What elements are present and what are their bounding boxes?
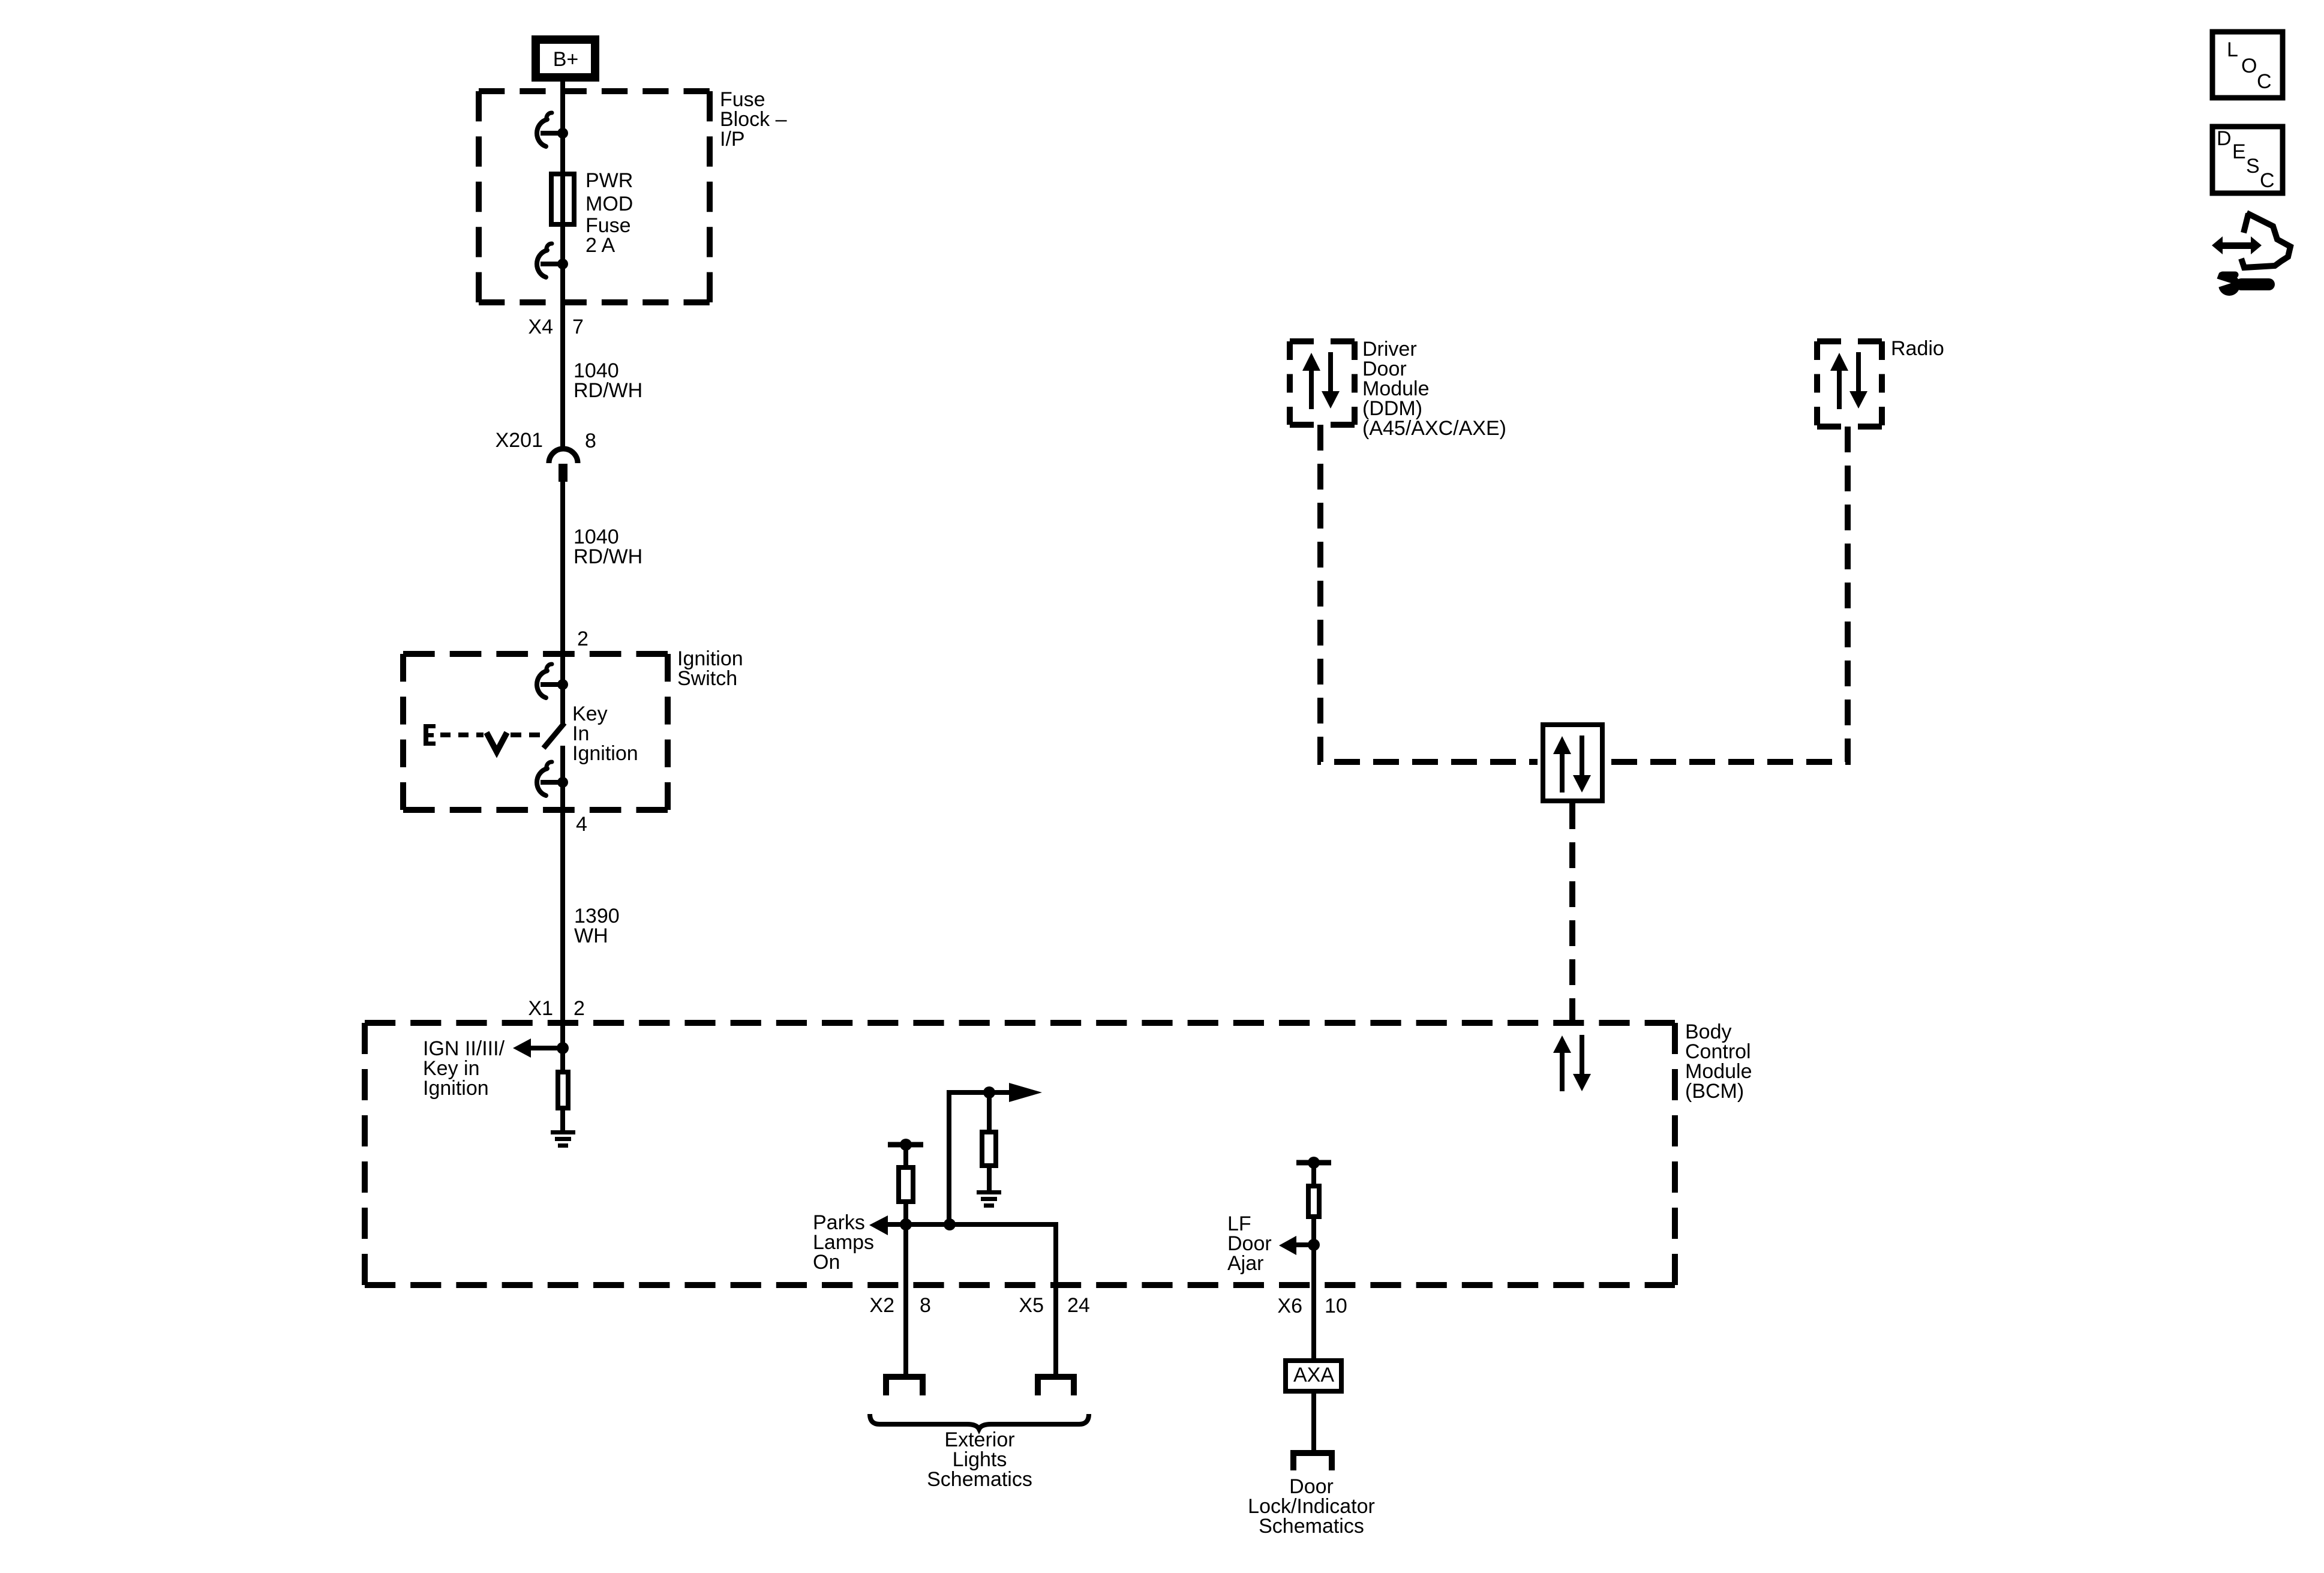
svg-text:C: C [2260, 169, 2275, 192]
svg-text:MOD: MOD [585, 193, 633, 215]
svg-text:24: 24 [1067, 1294, 1090, 1317]
svg-text:Switch: Switch [677, 667, 737, 690]
svg-text:(BCM): (BCM) [1685, 1080, 1744, 1103]
svg-text:X1: X1 [528, 997, 553, 1020]
svg-text:RD/WH: RD/WH [574, 545, 642, 568]
svg-text:2: 2 [577, 628, 588, 650]
svg-text:L: L [2227, 38, 2238, 61]
svg-text:Ajar: Ajar [1227, 1252, 1263, 1275]
svg-text:RD/WH: RD/WH [574, 379, 642, 402]
svg-text:D: D [2217, 127, 2232, 150]
svg-text:Radio: Radio [1891, 337, 1944, 360]
svg-text:2 A: 2 A [585, 234, 615, 257]
svg-text:8: 8 [920, 1294, 931, 1317]
svg-text:I/P: I/P [720, 128, 745, 151]
svg-text:8: 8 [585, 430, 596, 452]
svg-text:S: S [2246, 155, 2260, 178]
svg-text:PWR: PWR [585, 169, 633, 192]
svg-text:E: E [2232, 140, 2246, 163]
svg-text:C: C [2257, 70, 2272, 93]
svg-text:X2: X2 [869, 1294, 894, 1317]
svg-text:Schematics: Schematics [927, 1468, 1032, 1491]
svg-text:AXA: AXA [1293, 1364, 1334, 1386]
svg-text:B+: B+ [553, 48, 579, 71]
svg-text:4: 4 [576, 813, 587, 836]
svg-text:X5: X5 [1019, 1294, 1044, 1317]
svg-text:O: O [2241, 55, 2257, 77]
svg-text:WH: WH [574, 924, 608, 947]
svg-text:Schematics: Schematics [1259, 1515, 1364, 1538]
svg-text:2: 2 [574, 997, 585, 1020]
svg-text:Ignition: Ignition [572, 742, 638, 765]
svg-text:On: On [813, 1251, 840, 1274]
svg-text:X4: X4 [528, 316, 553, 338]
svg-text:7: 7 [572, 316, 584, 338]
svg-text:10: 10 [1325, 1295, 1347, 1317]
svg-text:X201: X201 [496, 429, 543, 452]
svg-text:Ignition: Ignition [423, 1077, 489, 1100]
svg-text:X6: X6 [1277, 1295, 1302, 1317]
svg-text:(A45/AXC/AXE): (A45/AXC/AXE) [1362, 417, 1506, 440]
